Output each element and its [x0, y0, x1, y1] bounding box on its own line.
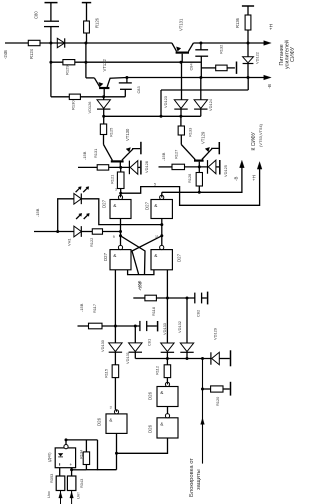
svg-text:-24В: -24В	[3, 50, 8, 59]
svg-text:VD126: VD126	[87, 102, 92, 114]
svg-text:R133: R133	[188, 128, 193, 137]
svg-text:&: &	[113, 253, 116, 258]
svg-text:R125: R125	[109, 128, 114, 137]
svg-text:&: &	[154, 253, 157, 258]
svg-text:R353: R353	[49, 474, 54, 483]
svg-text:С84: С84	[188, 63, 193, 71]
svg-text:С83: С83	[136, 86, 141, 93]
svg-text:R120: R120	[215, 396, 220, 406]
svg-text:D27: D27	[102, 199, 107, 208]
svg-text:D27: D27	[176, 253, 181, 262]
svg-text:R115: R115	[103, 369, 108, 378]
svg-text:С81: С81	[147, 339, 152, 346]
svg-text:&: &	[160, 421, 163, 426]
svg-text:VD133: VD133	[162, 323, 167, 335]
svg-text:R112: R112	[154, 366, 159, 375]
svg-text:К СИФУ: К СИФУ	[251, 131, 257, 150]
svg-text:&: &	[154, 203, 157, 208]
svg-text:R122: R122	[89, 238, 94, 247]
svg-text:+15В: +15В	[137, 281, 142, 291]
svg-text:D27: D27	[103, 252, 108, 261]
svg-text:VD129: VD129	[212, 328, 217, 340]
svg-text:-15В: -15В	[161, 152, 166, 161]
svg-text:R132: R132	[218, 45, 223, 54]
svg-text:D26: D26	[148, 424, 153, 433]
svg-text:R124: R124	[29, 48, 34, 59]
svg-text:R127: R127	[174, 150, 179, 159]
svg-text:5: 5	[154, 183, 156, 187]
svg-text:VD132: VD132	[177, 321, 182, 333]
svg-text:R136: R136	[235, 17, 240, 28]
svg-text:&: &	[160, 390, 163, 395]
svg-text:&: &	[113, 203, 116, 208]
svg-text:R134: R134	[78, 449, 83, 459]
svg-text:Uос: Uос	[46, 491, 51, 498]
svg-text:3: 3	[115, 188, 117, 192]
svg-text:-В: -В	[234, 177, 239, 181]
svg-text:VD131: VD131	[125, 352, 130, 364]
svg-text:Uлт: Uлт	[76, 492, 81, 499]
svg-text:VD128: VD128	[144, 161, 149, 173]
svg-text:-15В: -15В	[79, 303, 84, 312]
svg-text:R118: R118	[151, 307, 156, 316]
svg-text:R343: R343	[79, 479, 84, 488]
svg-text:СИФУ: СИФУ	[290, 46, 296, 62]
svg-text:R121: R121	[110, 175, 115, 184]
svg-text:-15В: -15В	[82, 151, 87, 160]
svg-text:R126: R126	[94, 17, 99, 28]
svg-text:VD130: VD130	[100, 339, 105, 352]
svg-text:VD123: VD123	[163, 96, 168, 108]
svg-text:D26: D26	[97, 417, 102, 426]
svg-text:VT132: VT132	[102, 58, 107, 71]
svg-text:-15В: -15В	[35, 208, 40, 217]
svg-text:D27: D27	[144, 201, 149, 210]
svg-text:защиты: защиты	[196, 469, 202, 490]
svg-text:-В: -В	[267, 84, 272, 89]
svg-text:VD125: VD125	[223, 165, 228, 177]
svg-text:11: 11	[155, 235, 159, 239]
svg-text:VT129: VT129	[201, 131, 206, 144]
svg-text:(VT53,VT54): (VT53,VT54)	[258, 123, 263, 147]
svg-text:С82: С82	[196, 310, 201, 317]
svg-text:9: 9	[113, 235, 115, 239]
svg-text:D26: D26	[148, 391, 153, 400]
svg-text:3: 3	[110, 406, 112, 410]
svg-text:R130: R130	[71, 100, 76, 110]
svg-text:R117: R117	[92, 304, 97, 313]
svg-text:&: &	[109, 417, 112, 422]
svg-text:+Н: +Н	[252, 175, 257, 181]
svg-text:VT130: VT130	[125, 128, 130, 141]
svg-text:Блокировка от: Блокировка от	[189, 458, 195, 497]
svg-text:R128: R128	[187, 174, 192, 183]
svg-text:C80: C80	[33, 11, 38, 19]
svg-text:VD124: VD124	[208, 98, 213, 111]
svg-text:(Д40): (Д40)	[46, 452, 51, 462]
svg-text:R129: R129	[64, 65, 69, 75]
svg-text:VD122: VD122	[255, 52, 260, 64]
svg-text:VT131: VT131	[179, 18, 184, 31]
svg-text:+: +	[70, 462, 73, 467]
svg-text:VH1: VH1	[67, 238, 72, 246]
svg-text:+Н: +Н	[269, 23, 275, 30]
svg-text:R131: R131	[93, 149, 98, 158]
